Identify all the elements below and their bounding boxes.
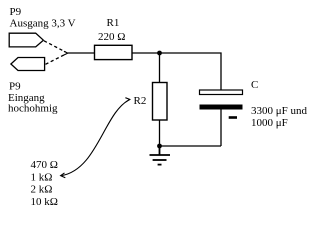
svg-text:P9: P9	[9, 81, 21, 93]
svg-text:hochohmig: hochohmig	[8, 103, 58, 115]
svg-text:1 kΩ: 1 kΩ	[31, 171, 53, 183]
wire: R1 to top-right corner	[132, 53, 221, 90]
capacitor C top plate	[200, 90, 243, 95]
svg-text:P9: P9	[10, 6, 22, 18]
connector P9 Eingang	[11, 58, 45, 71]
dashed leader from Ausgang connector	[44, 41, 66, 52]
ground	[150, 146, 171, 165]
svg-text:10 kΩ: 10 kΩ	[31, 196, 58, 208]
wire: node down to R2	[159, 53, 161, 83]
node junction dot (top)	[157, 51, 162, 56]
svg-text:1000 μF: 1000 μF	[251, 117, 288, 129]
dashed leader from Eingang connector	[46, 54, 66, 64]
arrowhead at wire start	[64, 51, 68, 55]
annotation arrow from value list to R2	[62, 100, 130, 176]
svg-text:C: C	[251, 79, 258, 91]
wire: R2 to bottom junction	[159, 120, 161, 146]
resistor R1	[95, 45, 133, 59]
svg-text:470 Ω: 470 Ω	[31, 159, 58, 171]
arrowhead toward 1 kΩ	[61, 173, 66, 178]
connector P9 Ausgang	[9, 33, 43, 47]
svg-text:3300 μF und: 3300 μF und	[251, 105, 308, 117]
svg-text:Ausgang 3,3 V: Ausgang 3,3 V	[10, 18, 76, 30]
arrowhead toward R2	[125, 98, 129, 102]
svg-text:220 Ω: 220 Ω	[98, 31, 125, 43]
svg-text:R2: R2	[134, 95, 147, 107]
resistor R2	[153, 83, 168, 121]
polarity minus marker	[229, 116, 237, 119]
wire: bottom horizontal	[160, 145, 222, 147]
svg-text:2 kΩ: 2 kΩ	[31, 184, 53, 196]
capacitor C bottom plate	[200, 105, 243, 110]
junction dot bottom	[157, 144, 162, 149]
svg-text:R1: R1	[107, 17, 120, 29]
wire: arrow to R1	[68, 52, 95, 54]
wire: capacitor bottom plate down	[220, 110, 222, 147]
